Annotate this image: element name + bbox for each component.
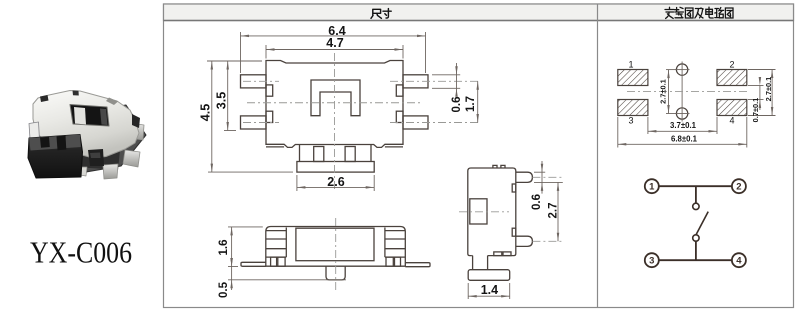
svg-text:1.6: 1.6 bbox=[218, 240, 230, 256]
svg-text:0.7±0.1: 0.7±0.1 bbox=[751, 98, 760, 123]
svg-text:2.6: 2.6 bbox=[327, 175, 344, 189]
svg-text:2: 2 bbox=[736, 182, 741, 193]
svg-text:4.5: 4.5 bbox=[199, 104, 213, 121]
svg-text:4.7: 4.7 bbox=[326, 36, 343, 50]
svg-text:6.8±0.1: 6.8±0.1 bbox=[671, 135, 698, 144]
svg-text:YX-C006: YX-C006 bbox=[30, 235, 132, 270]
svg-text:1: 1 bbox=[628, 60, 633, 70]
svg-text:0.6: 0.6 bbox=[531, 194, 543, 210]
svg-text:2.7±0.1: 2.7±0.1 bbox=[659, 79, 668, 104]
svg-text:2.7: 2.7 bbox=[548, 203, 560, 219]
svg-text:2: 2 bbox=[729, 60, 734, 70]
svg-text:1.7: 1.7 bbox=[465, 96, 477, 112]
svg-text:3: 3 bbox=[628, 116, 633, 126]
svg-text:3.7±0.1: 3.7±0.1 bbox=[670, 121, 697, 130]
svg-text:3: 3 bbox=[649, 256, 654, 267]
svg-text:0.5: 0.5 bbox=[218, 281, 230, 298]
svg-text:0.6: 0.6 bbox=[451, 97, 463, 113]
svg-text:1: 1 bbox=[649, 182, 655, 193]
svg-text:4: 4 bbox=[736, 256, 742, 267]
svg-text:3.5: 3.5 bbox=[215, 92, 229, 109]
svg-text:1.4: 1.4 bbox=[481, 283, 498, 297]
svg-text:4: 4 bbox=[729, 116, 734, 126]
svg-text:2.7±0.1: 2.7±0.1 bbox=[764, 77, 773, 102]
